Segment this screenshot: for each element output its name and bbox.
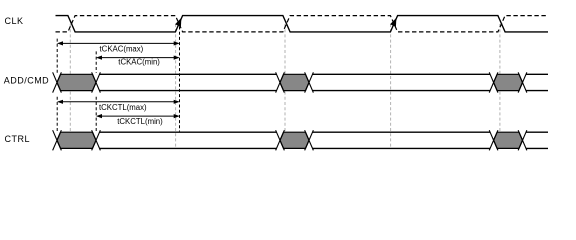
gray grid dashed vertical at CLK edge 2	[175, 24, 177, 148]
svg-text:tCKCTL(max): tCKCTL(max)	[99, 103, 147, 112]
CTRL transition X crossings	[53, 130, 527, 150]
black dashed reference line at second bus transition x=96	[95, 51, 97, 131]
gray grid dashed vertical at CLK edge 4	[390, 24, 392, 148]
black dashed reference line at first bus transition x=57	[56, 39, 58, 132]
ADD/CMD valid gray segment 3	[494, 74, 523, 90]
svg-text:CTRL: CTRL	[5, 134, 31, 144]
svg-text:CLK: CLK	[5, 16, 24, 26]
svg-text:tCKAC(min): tCKAC(min)	[118, 58, 160, 67]
arrowhead on CLK rising edge 2	[390, 18, 396, 27]
arrowhead on CLK rising edge 1	[175, 18, 181, 27]
svg-text:tCKAC(max): tCKAC(max)	[100, 44, 144, 53]
gray grid dashed vertical at CLK edge 1	[69, 24, 71, 148]
CLK complement dashed waveform	[56, 16, 549, 32]
svg-text:tCKCTL(min): tCKCTL(min)	[117, 117, 163, 126]
ADD/CMD valid gray segment 2	[280, 74, 309, 90]
dimension arrow tCKAC(min)	[96, 56, 180, 60]
dimension arrow tCKCTL(max)	[57, 100, 180, 104]
ADD/CMD valid gray segment 1	[57, 74, 96, 90]
ADD/CMD bus rails	[100, 74, 549, 90]
ADD/CMD transition X crossings	[53, 72, 527, 92]
dimension arrow tCKAC(max)	[57, 41, 180, 45]
CLK true clock solid waveform	[56, 16, 549, 32]
black dashed reference line at CLK rising edge x=179.5	[179, 27, 181, 132]
gray grid dashed vertical at CLK edge 5	[499, 24, 501, 148]
CTRL bus rails	[100, 132, 549, 148]
CTRL valid gray segment 2	[280, 132, 309, 148]
CTRL valid gray segment 3	[494, 132, 523, 148]
dimension arrow tCKCTL(min)	[96, 114, 180, 118]
CTRL valid gray segment 1	[57, 132, 96, 148]
svg-text:ADD/CMD: ADD/CMD	[4, 75, 50, 85]
gray grid dashed vertical at CLK edge 3	[284, 24, 286, 148]
